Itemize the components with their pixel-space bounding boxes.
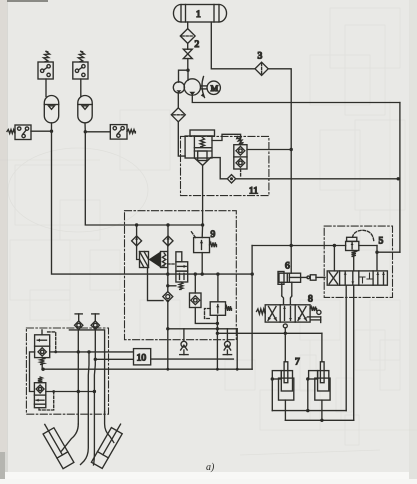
wire trunk x252 xyxy=(251,246,253,370)
hose 4 xyxy=(105,412,114,443)
brake cylinder left (slanted) xyxy=(39,421,74,468)
wire v1 spring tail to bus xyxy=(41,364,43,369)
wire orifice to filter block (staircase) xyxy=(211,158,227,179)
wire junction to auxiliary pump xyxy=(179,70,189,82)
wire junction to main pump xyxy=(187,70,189,80)
wire drain jog to t-check 2 xyxy=(226,329,228,341)
pilot dashes v2 xyxy=(39,392,54,411)
wire shutoff to pump junction xyxy=(187,59,189,71)
directional valve 4-pos xyxy=(327,271,387,285)
node drain/right trunk xyxy=(397,177,400,180)
brake cylinder right (slanted) xyxy=(91,421,126,468)
node accumulator 1 junction xyxy=(50,130,53,133)
node line1/check c2 xyxy=(166,223,169,226)
cylinder 7 unit 1 xyxy=(279,378,294,400)
enclosure brake box (dash-dot) xyxy=(26,328,108,414)
wire drain row y329 xyxy=(168,328,237,330)
wire line2 to pilot check xyxy=(194,274,196,293)
shut-off valve xyxy=(183,49,192,58)
wire bus B xyxy=(285,419,353,421)
test point 2 xyxy=(92,313,99,315)
node relief left ports xyxy=(333,244,336,247)
wire v2 right port xyxy=(46,391,95,393)
valve 8 right spring and detent xyxy=(310,307,317,311)
pressure switch top 1 xyxy=(38,62,53,79)
node trunk/check line xyxy=(290,148,293,151)
node relief right port xyxy=(375,251,378,254)
wire main pump pressure line to right trunk xyxy=(192,95,400,102)
svg-text:7: 7 xyxy=(295,358,300,368)
wire d2 down to drain row xyxy=(167,302,169,370)
node c2 col/drain stub xyxy=(166,284,169,287)
wire box 10 right line xyxy=(151,358,234,360)
wire filter block to check stack (staircase) xyxy=(212,134,241,144)
node bus A xyxy=(306,409,309,412)
wire bus A xyxy=(272,410,346,412)
wire pilot check to drain xyxy=(195,308,217,324)
cylinder 7 unit 2 xyxy=(315,378,330,400)
wire v1 top stub xyxy=(41,330,43,335)
pressure switch top 2 xyxy=(73,62,88,79)
wire cyl6 rod to valve xyxy=(289,276,307,278)
svg-text:3: 3 xyxy=(258,52,263,62)
filter 2 xyxy=(180,29,195,44)
wire side switch to junction xyxy=(31,130,52,132)
pressure switch side right xyxy=(110,125,127,140)
wire suction filter to reducing filter block xyxy=(178,122,185,156)
wire directional valve down lines xyxy=(345,285,347,410)
filter 3 xyxy=(255,62,268,75)
wire accumulator 1 down xyxy=(51,123,53,131)
wire c1 to cartridge xyxy=(137,246,140,260)
wire tank to filter 2 xyxy=(187,22,189,29)
wire relief 5 left port xyxy=(252,245,346,247)
wire tank return down xyxy=(211,22,255,69)
wire cartridge pilot loop xyxy=(148,268,164,301)
enclosure box 11 (dash-dot) xyxy=(181,136,269,195)
main pump (variable) xyxy=(184,79,200,95)
wire aux pump to suction filter xyxy=(177,93,179,108)
wire relief 5 right port xyxy=(359,245,377,247)
pilot dashes stack bottom xyxy=(240,169,242,178)
node trunk/relief line xyxy=(290,244,293,247)
svg-text:10: 10 xyxy=(137,353,147,363)
wire cyl7 side ports to bus A xyxy=(271,379,273,411)
wire drain bus y368 xyxy=(42,368,252,370)
svg-text:9: 9 xyxy=(211,230,216,240)
wire tp columns down xyxy=(77,329,79,424)
node v1 line junctions xyxy=(77,350,80,353)
node drain row xyxy=(284,332,287,335)
node bus joins xyxy=(166,368,169,371)
spool control valve xyxy=(176,252,182,262)
node bus B xyxy=(320,419,323,422)
wire test point header xyxy=(69,330,104,412)
wire junction 2 to side switch right xyxy=(85,131,110,133)
svg-text:11: 11 xyxy=(249,187,258,197)
svg-text:8: 8 xyxy=(308,295,313,305)
svg-text:6: 6 xyxy=(285,262,290,272)
brake valve v2 xyxy=(38,377,42,383)
node line2 junctions xyxy=(166,272,169,275)
wire tp2 column to box 10 xyxy=(95,358,133,360)
wire cyl7 bottom ports to bus B xyxy=(284,400,286,420)
wire cyl6 ports down to valve 8 xyxy=(281,282,283,296)
wire filter 3 to trunk x291 xyxy=(268,69,291,273)
pilot dashes v1 xyxy=(48,332,56,352)
wire drain row y333 xyxy=(217,332,322,334)
tank 1 xyxy=(181,5,219,23)
pilot dashes relief 5 xyxy=(353,230,374,242)
wire filter 2 to shutoff valve xyxy=(187,43,189,49)
svg-text:2: 2 xyxy=(195,40,200,50)
accumulator 1 xyxy=(44,96,58,123)
wire switch 2 to accumulator xyxy=(80,79,82,97)
wire col x89 xyxy=(81,352,90,465)
motor M xyxy=(207,81,220,94)
wire accumulator 1 column down to line2 xyxy=(52,131,253,274)
t-check drain 2 xyxy=(225,341,231,347)
wire line2 to valve b xyxy=(217,274,219,302)
auxiliary pump xyxy=(173,82,184,93)
relief valve 5 xyxy=(346,241,359,250)
wire switch 1 to accumulator xyxy=(45,79,47,97)
pressure switch side left xyxy=(15,125,31,140)
wire feeds to cyl7 rods xyxy=(284,333,286,362)
wire filter block drain to line1 xyxy=(202,165,204,225)
accumulator 2 xyxy=(78,96,92,123)
spring atop check stack xyxy=(237,137,244,144)
reducing/filter valve in box 11 xyxy=(190,130,215,136)
node bus/brake xyxy=(41,368,44,371)
svg-text:1: 1 xyxy=(196,10,201,20)
node cyl7 ports xyxy=(271,377,274,380)
wire right trunk down to relief 5 xyxy=(399,103,401,253)
valve 9 sequence xyxy=(194,238,210,253)
valve 8 directional xyxy=(265,305,310,322)
wire drain col x237 xyxy=(236,329,238,369)
wire check stack to trunk xyxy=(247,149,291,151)
wire spool drain stub xyxy=(168,285,176,287)
wire orifice drain line to right trunk xyxy=(236,178,399,180)
hose 1 xyxy=(62,424,79,451)
check valve c2 xyxy=(163,236,173,246)
test point 1 xyxy=(75,313,82,315)
check valve stack xyxy=(234,145,247,169)
wire v1 right port xyxy=(50,351,134,353)
valve b relief xyxy=(210,302,225,316)
pilot dash cartridge to spool xyxy=(168,263,176,265)
check valve d2 xyxy=(167,274,169,292)
node suction junction xyxy=(186,69,189,72)
wire drain jog to t-check 1 xyxy=(183,329,185,341)
enclosure central valve block (dash-dot) xyxy=(125,211,237,340)
cartridge unloading valve xyxy=(140,252,149,268)
t-check drain 1 xyxy=(181,341,187,347)
wire line1 to valve 9 xyxy=(201,225,203,238)
svg-text:a): a) xyxy=(206,462,215,473)
node drain row junctions xyxy=(216,322,219,325)
node line1 end/filter drain xyxy=(201,223,204,226)
cylinder 6 xyxy=(278,272,284,285)
node v2 line junctions xyxy=(77,390,80,393)
wire accumulator 2 down xyxy=(84,123,86,132)
suction filter xyxy=(171,108,185,122)
node d2 bottom xyxy=(166,300,169,303)
wire relief spring tail to valve xyxy=(353,256,355,271)
enclosure box 5 (dash-dot) xyxy=(324,226,392,297)
wire trunk corner to right port xyxy=(377,251,400,253)
svg-text:5: 5 xyxy=(379,237,384,247)
node line1/check c1 xyxy=(135,223,138,226)
svg-text:M: M xyxy=(211,83,219,93)
shaft pump-motor xyxy=(201,85,208,87)
valve 8 drain port xyxy=(283,324,287,328)
pilot operated check valve xyxy=(190,293,202,308)
node accumulator 2 junction xyxy=(84,130,87,133)
wire v1-v2 left link xyxy=(30,352,35,392)
check valve c1 xyxy=(136,225,138,236)
wire valve b drain column xyxy=(216,315,218,369)
box 10 xyxy=(134,349,151,365)
brake valve v1 xyxy=(35,335,50,358)
wire accumulator 2 column down to line1 xyxy=(85,132,202,225)
wire c2 column to line2 xyxy=(167,225,169,246)
wire valve 9 to line2 xyxy=(201,253,203,275)
wire valve ports up xyxy=(333,246,335,271)
orifice in box 11 xyxy=(227,175,235,183)
